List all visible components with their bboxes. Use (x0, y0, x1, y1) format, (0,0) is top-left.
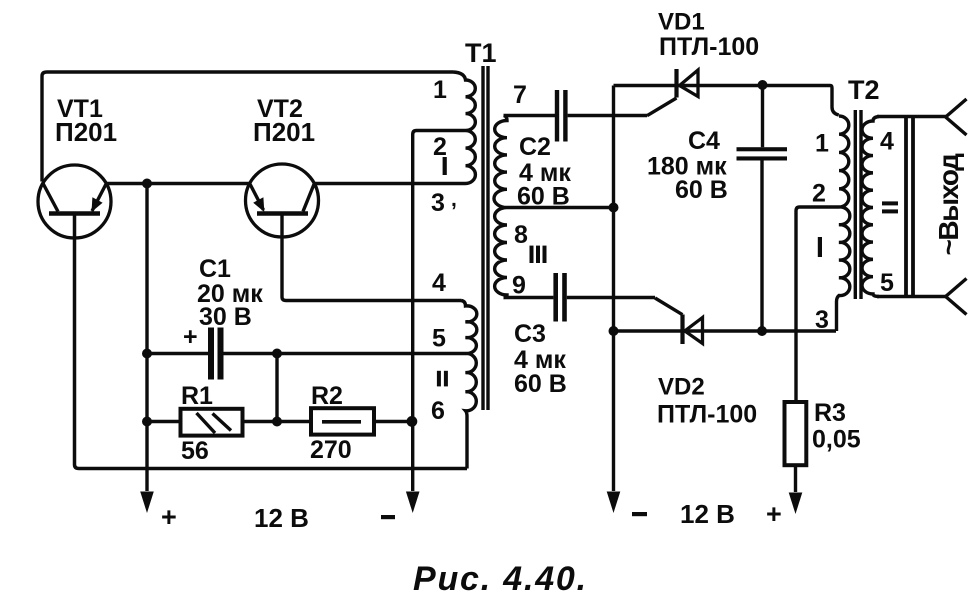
svg-text:R1: R1 (181, 382, 213, 410)
wire: T2 pin 4 to upper output (877, 115, 946, 118)
svg-text:+: + (183, 323, 198, 351)
svg-text:4: 4 (880, 128, 894, 156)
label - (left supply) (381, 515, 395, 519)
svg-text:~Выход: ~Выход (933, 153, 964, 256)
svg-text:+: + (766, 499, 782, 529)
svg-text:VD1: VD1 (658, 9, 705, 36)
capacitor C1 (147, 328, 466, 380)
transformer T2 secondary winding 4-5 (862, 117, 879, 297)
svg-text:30 В: 30 В (199, 303, 252, 331)
transistor VT1 (38, 165, 111, 238)
svg-text:1: 1 (815, 130, 829, 158)
node: T1 pin 8 junction (609, 203, 619, 213)
svg-text:1: 1 (433, 76, 447, 104)
node: R1 left junction (142, 417, 152, 427)
svg-text:3: 3 (431, 189, 445, 217)
svg-text:12 В: 12 В (680, 499, 735, 529)
resistor R1 (181, 409, 243, 436)
wire: VT2 collector to T1 pin 3 (314, 182, 465, 185)
svg-text:9: 9 (512, 272, 526, 300)
capacitor C4 (737, 85, 788, 331)
svg-text:2: 2 (812, 180, 826, 208)
svg-text:T2: T2 (848, 75, 880, 105)
svg-text:C1: C1 (199, 255, 231, 283)
wire: T1 pin 8 to rectifier midpoint bus (507, 206, 614, 209)
svg-text:2: 2 (433, 133, 447, 161)
wire: T2 pin 2 down to R3 (796, 207, 839, 402)
wire: VT1 base down and bottom rail to T1 pin 6 (75, 216, 468, 469)
label II (T2 winding, rotated) (882, 201, 898, 213)
arrow: +12V output terminal (789, 493, 803, 515)
svg-text:60 В: 60 В (517, 183, 570, 211)
wire: T2 pin 5 to lower output (877, 295, 946, 298)
svg-text:12 В: 12 В (254, 503, 309, 533)
wire: VD1 junction to T2 pin 1 (830, 86, 839, 116)
transformer T1 primary winding 1-2-3 (453, 72, 475, 184)
wire: emitter junction down to C1 (145, 184, 148, 354)
wire: rectifier midpoint bus down to -12V arrow (612, 86, 615, 492)
label - (right supply) (632, 512, 647, 516)
node: VD2 output junction (757, 326, 767, 336)
wire: T1 pin 2 down to negative bus (413, 131, 466, 492)
svg-text:270: 270 (310, 436, 352, 464)
svg-text:60 В: 60 В (675, 176, 728, 204)
svg-text:П201: П201 (55, 117, 117, 147)
svg-text:C4: C4 (688, 127, 720, 155)
svg-text:П201: П201 (253, 117, 315, 147)
terminal: lower output fork (946, 279, 967, 315)
transistor VT2 (246, 164, 319, 237)
transformer T1 core (483, 66, 488, 410)
wire: C1 junction down to R1-R2 junction (275, 354, 278, 422)
svg-text:60 В: 60 В (514, 370, 567, 398)
label III (T1 winding) (530, 246, 547, 263)
capacitor C3 (553, 273, 655, 322)
wire: R2 right to negative bus node (374, 420, 413, 423)
node: C1 right junction (272, 349, 282, 359)
wire: C2 diagonal to VD1 cathode (647, 98, 677, 116)
wire: top rail, VT1 collector to T1 pin 1 (42, 72, 453, 182)
wire: left junction down through bottom rail to +12V arrow (145, 354, 148, 492)
transformer T2 primary winding 1-2-3 (837, 116, 850, 331)
svg-text:R2: R2 (311, 382, 343, 410)
node: VD1 output junction (758, 80, 768, 90)
svg-text:5: 5 (432, 325, 446, 353)
svg-text:56: 56 (181, 437, 209, 465)
wire: output link line 2 (911, 117, 915, 297)
transformer T2 core (855, 110, 861, 299)
svg-text:8: 8 (514, 221, 528, 249)
svg-text:T1: T1 (465, 38, 497, 68)
svg-text:R3: R3 (814, 399, 846, 427)
wire: output link line 1 (904, 117, 908, 297)
node: emitter junction (142, 179, 152, 189)
svg-text:ПТЛ-100: ПТЛ-100 (659, 33, 759, 61)
wire: T1 pin 9 to C3 (504, 296, 554, 299)
wire: junction to R1 left (147, 420, 181, 423)
svg-text:C3: C3 (514, 320, 546, 348)
terminal: upper output fork (946, 99, 967, 135)
wire: C3 diagonal to VD2 cathode (655, 298, 683, 315)
arrow: -12V terminal (406, 492, 420, 514)
svg-text:4: 4 (432, 269, 446, 297)
svg-text:ПТЛ-100: ПТЛ-100 (657, 401, 757, 429)
transformer T1 secondary winding 7-8-9 (494, 116, 507, 298)
resistor R2 (311, 408, 374, 434)
wire: R1 right to R2 left (243, 420, 312, 423)
svg-text:Рис. 4.40.: Рис. 4.40. (413, 560, 588, 598)
svg-text:5: 5 (880, 269, 894, 297)
node: C1 left junction (142, 349, 152, 359)
node: R2 negative bus junction (407, 416, 418, 427)
svg-text:C2: C2 (519, 133, 551, 161)
node: midpoint bus to VD2 junction (609, 326, 619, 336)
diode VD1 (614, 69, 831, 98)
node: R1-R2 junction (272, 417, 282, 427)
svg-text:,: , (451, 188, 457, 211)
capacitor C2 (555, 90, 647, 142)
svg-text:6: 6 (431, 397, 445, 425)
svg-text:3: 3 (815, 306, 829, 334)
svg-text:0,05: 0,05 (812, 426, 861, 454)
label I (T1 winding) (443, 157, 447, 175)
arrow: -12V output terminal (607, 492, 621, 514)
label II (T1 winding) (437, 371, 448, 387)
svg-text:7: 7 (513, 81, 527, 109)
label I (T2 winding) (818, 237, 822, 257)
svg-text:VD2: VD2 (658, 374, 705, 401)
wire: T1 pin 7 to C2 (504, 114, 556, 117)
diode VD2 (614, 315, 837, 345)
arrow: +12V terminal (140, 492, 154, 514)
wire: VT2 base to T1 pin 4 (282, 214, 461, 301)
resistor R3 (785, 402, 807, 492)
wire: VT1 emitter to VT2 emitter (106, 182, 249, 185)
transformer T1 primary winding 4-5-6 (461, 301, 477, 469)
svg-text:+: + (161, 502, 177, 532)
